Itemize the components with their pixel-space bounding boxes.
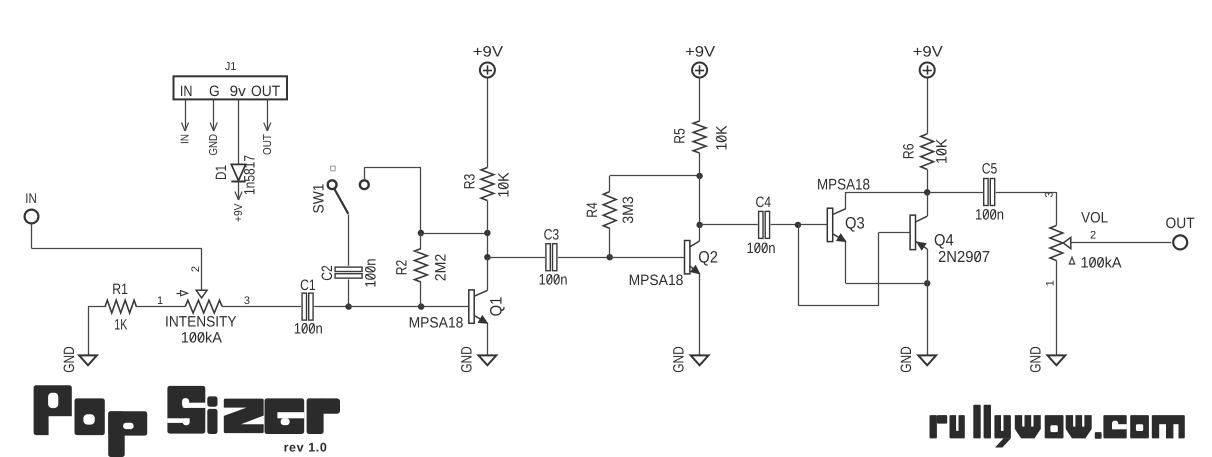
J1 pin IN wire [180, 99, 192, 144]
wire Q2 collector [699, 225, 701, 241]
logo Pop - o [75, 398, 105, 435]
junction R4 node [607, 254, 613, 260]
svg-text:C3: C3 [544, 227, 560, 244]
junction on R3 line [484, 230, 490, 236]
svg-text:100kA: 100kA [181, 329, 222, 346]
wire pot to C1 [222, 306, 301, 308]
logo rullywow - o [1045, 415, 1064, 438]
svg-text:C1: C1 [300, 277, 316, 294]
logo Sizer - S [167, 386, 205, 434]
svg-text:R3: R3 [461, 174, 478, 190]
svg-text:rev 1.0: rev 1.0 [284, 441, 328, 455]
logo Sizer - z [224, 399, 264, 434]
resistor R6 [900, 134, 950, 170]
wire Q2 emitter to GND [699, 274, 701, 356]
svg-text:100n: 100n [746, 240, 775, 257]
logo rullywow - l2 [984, 405, 991, 439]
resistor R2 [393, 233, 449, 307]
svg-text:+9V: +9V [685, 43, 715, 60]
svg-text:OUT: OUT [1166, 215, 1195, 232]
svg-text:10K: 10K [713, 125, 730, 150]
svg-text:2: 2 [190, 266, 202, 272]
resistor R3 [461, 168, 512, 201]
svg-text:1K: 1K [114, 316, 127, 333]
wire Q3 collector [846, 192, 928, 209]
resistor R5 [671, 121, 730, 153]
wire C3 to R4 node [558, 257, 610, 259]
svg-text:C2: C2 [319, 265, 336, 281]
svg-text:J1: J1 [225, 61, 237, 73]
wire 9V to R6 [927, 78, 929, 134]
svg-text:2N2907: 2N2907 [938, 249, 990, 266]
wire node to Q3 base [798, 224, 827, 226]
port IN [25, 190, 39, 223]
capacitor C5 [975, 161, 1004, 224]
transistor Q4 [910, 215, 990, 266]
svg-text:Q2: Q2 [698, 249, 718, 267]
svg-text:100n: 100n [362, 258, 379, 287]
svg-text:OUT: OUT [262, 134, 274, 155]
svg-text:Q4: Q4 [934, 232, 954, 250]
wire node to C4 [700, 224, 758, 226]
svg-text:3: 3 [1044, 191, 1056, 197]
ground at Q2 [671, 346, 709, 373]
svg-text:+9V: +9V [473, 43, 503, 60]
junction Q3 base node [795, 222, 801, 228]
logo rullywow - l [973, 405, 980, 439]
svg-text:OUT: OUT [251, 83, 280, 100]
ground at Q1 [459, 346, 497, 373]
svg-text:GND: GND [1028, 346, 1045, 373]
transistor Q1 [409, 290, 506, 332]
svg-text:100kA: 100kA [1080, 255, 1121, 272]
svg-text:3: 3 [244, 295, 250, 307]
wire Q1 emitter to GND [487, 323, 489, 355]
logo rullywow - r [930, 415, 948, 438]
wire VOL to GND [1056, 261, 1058, 356]
pot INTENSITY wiper [177, 290, 208, 298]
wire node to R2 node [349, 306, 422, 308]
junction C4 node [696, 222, 702, 228]
svg-text:Q3: Q3 [845, 214, 865, 232]
port OUT [1166, 215, 1195, 249]
label pin 3 [244, 295, 250, 307]
logo rev 1.0 [284, 441, 328, 455]
svg-text:GND: GND [208, 134, 220, 156]
svg-text:D1: D1 [213, 165, 230, 180]
wire 9V to R3 [487, 77, 489, 167]
potentiometer VOL [1050, 209, 1122, 271]
junction C2 node [345, 303, 351, 309]
svg-text:1n5817: 1n5817 [242, 155, 259, 195]
wire R6 to node [927, 169, 929, 192]
slashed zeros [191, 136, 1103, 341]
capacitor C2 [319, 258, 379, 287]
svg-text:100n: 100n [294, 320, 323, 337]
svg-text:INTENSITY: INTENSITY [165, 314, 237, 331]
junction R2 node [418, 303, 424, 309]
svg-text:2: 2 [1090, 229, 1096, 241]
svg-text:3M3: 3M3 [620, 196, 637, 224]
wire feedback to Q4 base [798, 225, 910, 306]
svg-text:MPSA18: MPSA18 [409, 315, 464, 332]
label pin 3 VOL [1044, 191, 1056, 197]
wire Q3 emitter [846, 242, 928, 284]
wire Q4 collector [927, 192, 929, 216]
wire Q1 collector [487, 257, 489, 290]
wire R2 top node to R3 line [421, 233, 488, 235]
logo rullywow - o2 [1130, 415, 1149, 438]
transistor Q3 [817, 176, 870, 241]
svg-text:MPSA18: MPSA18 [817, 176, 870, 193]
wire C1 to node [314, 306, 348, 308]
wire SW1 to R2 top [364, 168, 421, 234]
svg-text:10K: 10K [495, 172, 512, 197]
switch SW1 [311, 166, 369, 214]
svg-text:100n: 100n [975, 207, 1004, 224]
power +9V (R6) [913, 43, 943, 77]
capacitor C1 [294, 277, 323, 337]
logo rullywow - w [1015, 415, 1041, 439]
potentiometer INTENSITY [165, 300, 237, 346]
logo rullywow - m [1152, 415, 1185, 439]
svg-text:IN: IN [180, 83, 193, 100]
wire R3 to collector node [487, 201, 489, 258]
label pin 1 VOL [1045, 280, 1057, 286]
svg-text:1: 1 [1045, 280, 1057, 286]
wire C4 to Q3 node [771, 224, 798, 226]
svg-text:2M2: 2M2 [432, 254, 449, 282]
svg-text:100n: 100n [538, 272, 567, 289]
logo rullywow - y [994, 415, 1011, 448]
J1 pin G wire [208, 99, 220, 155]
svg-text:1: 1 [157, 295, 163, 307]
junction R2 top [418, 230, 424, 236]
svg-text:9v: 9v [230, 83, 247, 100]
svg-text:IN: IN [180, 134, 192, 144]
logo rullywow - u [950, 415, 965, 439]
wire SW1 lever to C2 [348, 215, 350, 266]
logo rullywow - c [1103, 415, 1126, 438]
node +9V arrow [233, 181, 245, 222]
wire R1 left to GND [88, 307, 106, 356]
svg-text:R4: R4 [584, 202, 601, 218]
diode D1 [213, 155, 258, 195]
wire node to Q1 base [421, 306, 469, 308]
logo rullywow - period [1095, 432, 1102, 439]
svg-text:R1: R1 [112, 281, 128, 298]
svg-text:IN: IN [25, 190, 37, 206]
svg-text:+9V: +9V [233, 203, 245, 222]
logo Pop - P [34, 385, 73, 436]
power +9V (R5) [685, 43, 715, 77]
resistor R1 [105, 281, 136, 333]
wire node to C3 [487, 257, 545, 259]
svg-text:10K: 10K [933, 139, 950, 164]
capacitor C4 [746, 194, 775, 257]
logo rullywow - w2 [1066, 415, 1092, 439]
transistor Q2 [629, 241, 718, 290]
svg-text:R6: R6 [900, 144, 917, 160]
svg-text:C5: C5 [982, 161, 998, 178]
svg-text:GND: GND [459, 346, 476, 373]
label pin 2 [190, 266, 202, 272]
svg-text:MPSA18: MPSA18 [629, 272, 684, 289]
svg-text:GND: GND [671, 346, 688, 373]
connector J1 [174, 61, 288, 100]
svg-text:GND: GND [61, 346, 78, 373]
svg-text:C4: C4 [756, 194, 772, 211]
logo Sizer - e [265, 398, 305, 434]
J1 pin OUT wire [262, 99, 274, 155]
wire Q4 emitter to GND [927, 249, 929, 355]
wire C2 to node [348, 279, 350, 306]
svg-text:VOL: VOL [1081, 209, 1108, 226]
wire R5 to C4 node [699, 153, 701, 225]
svg-text:R2: R2 [393, 260, 410, 276]
ground at VOL [1028, 346, 1066, 373]
svg-text:SW1: SW1 [311, 184, 328, 214]
junction R6/C5 node [924, 189, 930, 195]
svg-text:GND: GND [898, 346, 915, 373]
capacitor C3 [538, 227, 567, 289]
wire node to Q2 base [610, 257, 685, 259]
svg-text:Q1: Q1 [488, 297, 506, 317]
power +9V (R3) [473, 43, 503, 77]
ground at R1 [61, 346, 97, 373]
wire IN to pot wiper [31, 222, 201, 290]
wire node to C5 [927, 192, 983, 194]
wire R1 to pot [136, 295, 185, 307]
wire wiper to OUT [1071, 229, 1171, 242]
junction emitter node [924, 280, 930, 286]
svg-text:+9V: +9V [913, 43, 943, 60]
junction collector node Q1 [484, 254, 490, 260]
wire C5 to VOL [996, 192, 1057, 225]
logo Pop - p [108, 411, 147, 457]
junction R4 top node [696, 173, 702, 179]
logo Sizer - i [207, 396, 217, 434]
J1 pin 9v wire [238, 99, 240, 164]
wire 9V to R5 [699, 77, 701, 121]
logo Sizer - r [307, 398, 340, 434]
svg-text:R5: R5 [671, 128, 688, 144]
svg-text:G: G [209, 83, 220, 100]
resistor R4 [584, 176, 700, 258]
ground at Q4 [898, 346, 936, 373]
